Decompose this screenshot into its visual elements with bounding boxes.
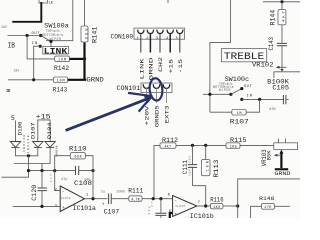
switch SW100a contact xyxy=(39,34,42,37)
svg-text:50V: 50V xyxy=(148,206,151,214)
resistor R144 xyxy=(281,2,283,10)
svg-text:63V: 63V xyxy=(269,108,276,112)
svg-text:+: + xyxy=(62,206,65,211)
svg-text:27K: 27K xyxy=(264,206,272,210)
svg-text:IC101b: IC101b xyxy=(190,213,214,218)
svg-text:4k7: 4k7 xyxy=(282,11,287,22)
svg-text:1u: 1u xyxy=(101,190,105,194)
wire stub to SW100c xyxy=(203,93,231,95)
resistor R143 xyxy=(53,77,67,83)
svg-text:1N4148: 1N4148 xyxy=(27,135,30,153)
op-amp IC101b xyxy=(173,196,197,217)
wire R107 to IN node xyxy=(246,99,259,112)
svg-text:100u 50V: 100u 50V xyxy=(188,156,191,176)
svg-text:1M: 1M xyxy=(237,112,242,116)
svg-text:TL072: TL072 xyxy=(175,205,185,208)
capacitor C111 xyxy=(192,145,194,185)
wire R112 to pin6 node xyxy=(154,145,160,198)
switch SW100a IN contact xyxy=(39,45,42,48)
svg-text:7: 7 xyxy=(198,201,200,205)
switch SW100c IN contact and wire xyxy=(240,98,243,101)
connector fragment at top edge xyxy=(39,0,47,3)
resistor R142 xyxy=(55,56,70,62)
wire from OUT node down to R142 xyxy=(27,36,54,59)
svg-text:CH2: CH2 xyxy=(158,57,164,72)
capacitor C112 xyxy=(160,199,162,218)
svg-text:4K7: 4K7 xyxy=(164,145,171,149)
svg-text:CON101: CON101 xyxy=(117,85,141,92)
svg-text:GRND: GRND xyxy=(148,58,154,81)
svg-text:VR102: VR102 xyxy=(252,61,274,68)
svg-text:IC101a: IC101a xyxy=(73,205,96,212)
svg-text:18V: 18V xyxy=(1,25,7,29)
svg-text:+: + xyxy=(102,203,105,208)
svg-text:GRND5: GRND5 xyxy=(154,105,160,127)
svg-text:18V: 18V xyxy=(14,69,20,73)
svg-text:OUT: OUT xyxy=(244,85,253,89)
svg-text:1N4148: 1N4148 xyxy=(55,145,58,157)
svg-text:C120: C120 xyxy=(31,184,38,200)
svg-text:2: 2 xyxy=(146,37,148,41)
svg-text:GRND: GRND xyxy=(274,170,291,177)
svg-text:1K5: 1K5 xyxy=(230,145,237,149)
wire D106/D107 cathodes xyxy=(16,148,38,156)
bottom rail to + input xyxy=(13,205,61,207)
svg-text:1: 1 xyxy=(137,37,139,41)
svg-text:R143: R143 xyxy=(53,86,68,93)
ground bar GRND xyxy=(275,168,288,170)
svg-text:C107: C107 xyxy=(104,209,120,216)
svg-text:LINK: LINK xyxy=(44,47,69,57)
wire R115 to VR103 xyxy=(240,144,274,146)
svg-text:68K: 68K xyxy=(74,156,82,160)
annotation blue circle xyxy=(149,78,164,101)
svg-text:IN: IN xyxy=(32,42,38,46)
svg-text:D107: D107 xyxy=(31,123,37,140)
svg-text:10M: 10M xyxy=(57,80,65,84)
switch SW100a arm xyxy=(41,36,51,47)
wire lower rail xyxy=(8,79,53,81)
svg-text:-15: -15 xyxy=(178,59,184,74)
svg-text:LE: LE xyxy=(49,2,54,6)
svg-text:CON100: CON100 xyxy=(111,34,134,41)
svg-text:C105: C105 xyxy=(272,85,289,92)
rail R112 to R115 xyxy=(176,144,226,146)
TREBLE box xyxy=(221,49,266,62)
svg-text:-: - xyxy=(174,199,177,204)
op-amp IC101a xyxy=(60,186,84,212)
diode D107 xyxy=(33,142,43,148)
svg-text:R142: R142 xyxy=(54,65,69,72)
potentiometer VR103 xyxy=(274,143,298,150)
svg-text:R110: R110 xyxy=(69,146,87,153)
wire to right edge xyxy=(238,179,300,218)
CON100 pin 4 xyxy=(167,30,173,34)
LINK box xyxy=(43,47,69,54)
svg-text:R113: R113 xyxy=(213,159,220,177)
svg-text:1K0: 1K0 xyxy=(213,206,220,210)
wire bold from R142 xyxy=(70,58,85,60)
svg-text:IB: IB xyxy=(6,88,11,94)
wire C143 to VR102 wiper xyxy=(281,46,283,70)
VR103 wiper bold xyxy=(280,153,282,169)
CON100 pin 5 xyxy=(177,30,183,34)
svg-text:LINK: LINK xyxy=(139,57,145,79)
svg-text:R144: R144 xyxy=(270,10,277,26)
svg-text:GRND: GRND xyxy=(86,76,104,83)
svg-text:100n: 100n xyxy=(116,190,125,194)
svg-text:R141: R141 xyxy=(91,26,98,43)
svg-text:IN: IN xyxy=(247,94,253,98)
svg-text:+: + xyxy=(174,212,177,217)
svg-text:R116: R116 xyxy=(210,196,224,203)
svg-text:390: 390 xyxy=(85,28,89,40)
svg-text:EXT3: EXT3 xyxy=(164,106,170,124)
resistor R141 xyxy=(84,0,86,26)
resistor R113 xyxy=(205,145,207,159)
wire D104 cathode jog xyxy=(14,148,50,164)
wire left input xyxy=(2,171,29,178)
svg-text:4.7K: 4.7K xyxy=(131,198,140,202)
svg-text:D106: D106 xyxy=(18,122,24,136)
svg-text:B5K: B5K xyxy=(266,150,273,161)
CON100 pin 2 xyxy=(147,30,153,34)
resistor R107 xyxy=(210,111,232,113)
wire C111/R113 bottom xyxy=(193,186,206,206)
svg-text:+20V: +20V xyxy=(144,105,150,126)
svg-text:TL072: TL072 xyxy=(61,197,71,200)
CON101 pin 1 xyxy=(143,84,150,88)
svg-text:2n2: 2n2 xyxy=(151,198,154,207)
capacitor C120 xyxy=(41,171,43,207)
svg-text:R148: R148 xyxy=(259,196,274,202)
rail inverting input xyxy=(29,170,94,172)
svg-text:R111: R111 xyxy=(128,187,143,194)
VR102 wiper arrows xyxy=(277,66,286,68)
wire thick L (bold) xyxy=(12,2,41,22)
wire top right rail xyxy=(263,1,300,3)
wire to SW100a xyxy=(8,35,41,37)
svg-text:4n7: 4n7 xyxy=(50,174,53,182)
wire from top to SW100c / R107 xyxy=(210,0,231,112)
svg-text:+15: +15 xyxy=(168,59,174,74)
output wire IC101b xyxy=(197,205,211,207)
svg-text:5: 5 xyxy=(11,115,15,122)
svg-text:R107: R107 xyxy=(230,118,249,125)
svg-text:4: 4 xyxy=(166,37,168,41)
CON100 pin 3 xyxy=(157,30,163,34)
svg-text:C143: C143 xyxy=(268,37,275,51)
wire bold R143 to GRND xyxy=(68,79,87,81)
feedback wires xyxy=(55,156,71,191)
wire IN contact down to lower rail xyxy=(34,46,41,80)
capacitor C108 xyxy=(76,166,79,175)
svg-text:-: - xyxy=(62,190,65,195)
wire stub top edge xyxy=(167,0,169,3)
CON100 pin 1 xyxy=(138,30,144,34)
svg-text:D104: D104 xyxy=(47,123,53,140)
svg-text:1N4148: 1N4148 xyxy=(23,135,26,152)
bold + input wire xyxy=(170,213,173,218)
output wire IC101a xyxy=(85,198,108,200)
svg-text:50V: 50V xyxy=(85,178,91,182)
svg-text:10M: 10M xyxy=(58,59,66,63)
svg-text:3: 3 xyxy=(156,37,158,41)
svg-text:IB: IB xyxy=(8,43,16,51)
diode D106 xyxy=(10,142,20,148)
capacitor C143 xyxy=(281,25,283,43)
svg-text:5: 5 xyxy=(176,37,178,41)
annotation blue arrow xyxy=(66,98,151,131)
switch SW100c arm xyxy=(229,93,232,96)
diode D104 xyxy=(45,142,55,148)
SW100a module box xyxy=(46,0,73,41)
node junction xyxy=(26,34,29,37)
svg-text:10K: 10K xyxy=(206,160,210,171)
svg-text:47p: 47p xyxy=(61,178,67,182)
CON101 pin 3 xyxy=(163,84,170,88)
wire bold R141 to GRND rail xyxy=(83,43,85,80)
svg-text:WIPER: WIPER xyxy=(219,88,231,92)
CON101 pin 2 xyxy=(153,84,160,88)
